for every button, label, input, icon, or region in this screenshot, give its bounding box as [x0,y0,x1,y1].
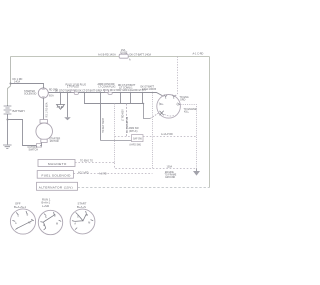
svg-text:1 TV PLUG: 1 TV PLUG [67,87,79,89]
svg-text:TO ENG TO: TO ENG TO [80,159,93,162]
wire key switch B from fuse (dashed) [175,57,178,97]
svg-text:TO KEY SW B: TO KEY SW B [103,118,105,133]
svg-text:KILL: KILL [184,111,190,114]
wire top border line [11,56,210,58]
node bus tap 68 [67,92,69,94]
wire battery negative down [7,120,9,145]
wire dashed magneto right [75,162,115,164]
wire starter bottom to cutoff [40,142,42,145]
svg-text:6GA: 6GA [49,95,54,98]
svg-text:B+A+S+1: B+A+S+1 [14,205,26,209]
svg-text:SOLENOID: SOLENOID [24,93,37,96]
wire dashed col x126.2 [126,104,128,137]
cutoff switch [37,144,42,148]
svg-text:A-1A-P RD: A-1A-P RD [161,133,173,136]
switch detail START [70,202,95,234]
wire dashed fuel solenoid right [74,173,153,175]
wire short drop x142.6 [142,93,144,104]
key switch S1 [157,94,181,118]
svg-text:A-2 RD: A-2 RD [99,173,107,176]
svg-text:FUEL SOLENOID: FUEL SOLENOID [42,173,72,177]
wire dashed bottom border [78,187,210,189]
wire left border line [8,57,11,106]
ground chassis outline [57,105,65,110]
svg-text:100A: 100A [167,165,173,168]
wire dotted col x114.8 [114,104,116,163]
node battery junction top [10,83,12,85]
svg-text:MOTOR: MOTOR [50,140,59,143]
connector box key switch [101,140,132,142]
wiper arc [164,114,175,116]
box magneto [38,160,75,167]
svg-text:BATTERY: BATTERY [13,109,26,113]
svg-text:GROUND: GROUND [165,177,176,179]
svg-text:SAF SW: SAF SW [133,138,143,141]
terminal X [160,111,164,116]
svg-text:GRD: GRD [180,99,186,102]
wire key switch M to right (dotted) [181,105,197,169]
wire battery to cutoff switch [8,120,37,146]
svg-text:LT RD-KEY: LT RD-KEY [123,109,125,121]
svg-text:(A-RD SW): (A-RD SW) [130,143,142,146]
switch detail OFF [10,202,35,234]
svg-text:RD 1 RD 6GA: RD 1 RD 6GA [46,102,49,117]
svg-text:FUSE: FUSE [120,50,127,54]
box alternator [37,182,78,190]
solenoid K1 [38,88,48,98]
wire dashed module to right [115,136,197,138]
svg-text:M: M [28,221,30,224]
svg-text:A-0 B-RD 14GA: A-0 B-RD 14GA [98,53,116,56]
svg-text:NO 2+RD: NO 2+RD [78,171,89,174]
starter motor M1 [36,120,53,143]
svg-text:M: M [56,222,58,225]
svg-text:A-1 C-RD: A-1 C-RD [193,53,204,56]
box fuel solenoid [37,171,73,179]
wire dotted col x152.5 [152,93,154,169]
wire drop to ground1 [60,93,62,105]
interlock module box [132,135,144,142]
wire short drop x130.2 [130,93,132,104]
ground battery (earth bars) [3,145,12,148]
svg-text:DK OT-DT BATT-GRD DK CT-DT BAT: DK OT-DT BATT-GRD DK CT-DT BATT-GRD [55,89,101,92]
wire right border line [209,57,211,188]
wire solenoid to starter [43,98,45,120]
svg-text:TO FRAME: TO FRAME [165,174,177,177]
battery BAT1 [4,105,12,120]
node battery junction bottom [7,119,9,121]
svg-text:M: M [88,222,90,225]
wire dashed harness bottom [115,163,197,169]
svg-text:14GA 1 RD B: 14GA 1 RD B [142,88,156,91]
wire kill path [144,104,151,119]
wire main bus [48,93,163,97]
svg-text:L+M2: L+M2 [42,204,50,208]
wire L-drop x84 [85,93,144,104]
wire battery feed to solenoid [11,84,44,89]
node bus tap 60 [60,92,62,94]
connector J1 on bus [71,90,79,94]
wire short drop x120.7 [120,93,122,104]
svg-text:LT CONN PLUG: LT CONN PLUG [99,87,116,89]
terminal S [159,103,163,105]
wire key column [100,93,102,141]
svg-text:(INTLK): (INTLK) [129,130,138,133]
switch detail RUN [38,197,62,234]
connector J2 on bus [104,90,112,94]
fuse F1 [119,48,131,62]
ground engine (filled) [196,169,198,172]
svg-text:MAGNETO: MAGNETO [48,162,67,166]
ground filled triangle [64,117,71,120]
terminal M [176,103,180,106]
svg-text:DK GT-BATT 14GA: DK GT-BATT 14GA [130,53,152,56]
wire drop to ground2 [67,93,69,118]
svg-text:ALTERNATOR (15V): ALTERNATOR (15V) [39,186,73,190]
svg-text:B+A+S: B+A+S [77,205,86,209]
svg-text:SWITCH: SWITCH [29,149,39,152]
terminal B [172,95,175,99]
terminal A [164,94,167,98]
svg-text:(LT CONN) 1: (LT CONN) 1 [119,87,133,89]
